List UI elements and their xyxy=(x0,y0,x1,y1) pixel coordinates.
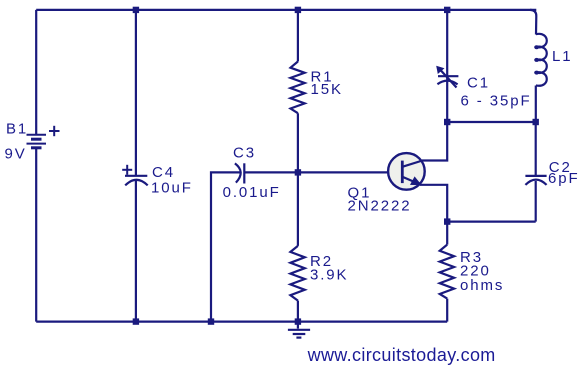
battery B1 xyxy=(27,135,47,148)
wire R1 to C3 node to R2 xyxy=(297,113,299,246)
resistor R2 xyxy=(290,246,304,301)
wire C4 branch lower xyxy=(135,181,137,322)
wire C3 right to Q1 base xyxy=(244,171,401,173)
wire L1 top corner xyxy=(530,10,536,35)
junction node tank right xyxy=(533,119,539,125)
wire R3 upper xyxy=(446,222,448,245)
svg-text:C1: C1 xyxy=(467,75,490,92)
wire R1 branch upper xyxy=(297,10,299,62)
wire top rail xyxy=(36,9,536,11)
wire left rail (battery branch upper) xyxy=(35,10,37,134)
wire C4 branch upper xyxy=(135,10,137,175)
ground xyxy=(288,322,310,338)
wire collector riser xyxy=(422,122,447,161)
wire tank bottom horizontal xyxy=(447,221,536,223)
svg-text:L1: L1 xyxy=(552,48,573,65)
junction node bottom at C4 xyxy=(133,318,139,324)
junction node bottom at C3 xyxy=(208,318,214,324)
svg-text:C4: C4 xyxy=(152,164,175,181)
resistor R3 xyxy=(440,245,454,299)
junction node bottom at ground xyxy=(295,318,301,324)
junction node top rail at R1 xyxy=(295,7,301,13)
wire R3 lower xyxy=(446,299,448,322)
svg-text:ohms: ohms xyxy=(460,277,504,294)
junction node C3 base xyxy=(295,169,301,175)
C1 arrow head xyxy=(436,66,444,74)
svg-text:9V: 9V xyxy=(5,146,27,163)
wire emitter to junction xyxy=(420,185,447,222)
svg-text:6pF: 6pF xyxy=(548,170,580,187)
C4 plus sign xyxy=(122,165,132,175)
svg-text:www.circuitstoday.com: www.circuitstoday.com xyxy=(307,345,496,365)
battery plus sign xyxy=(49,126,60,136)
junction node emitter xyxy=(444,218,450,224)
wire R2 to ground node xyxy=(297,301,299,322)
svg-text:6 - 35pF: 6 - 35pF xyxy=(461,93,532,110)
variable capacitor C1 xyxy=(437,70,458,88)
wire C2 upper xyxy=(535,122,537,175)
capacitor C2 xyxy=(525,176,546,185)
L1 coil knots xyxy=(534,45,539,74)
wire battery to bottom rail xyxy=(35,148,37,322)
svg-text:0.01uF: 0.01uF xyxy=(223,184,281,201)
transistor Q1 xyxy=(388,153,425,190)
svg-text:B1: B1 xyxy=(6,121,28,138)
junction node top rail at C4 xyxy=(133,7,139,13)
wire L1 bottom xyxy=(535,86,537,123)
svg-text:10uF: 10uF xyxy=(151,180,193,197)
svg-text:3.9K: 3.9K xyxy=(310,266,348,283)
capacitor C3 xyxy=(235,163,244,183)
wire C2 lower xyxy=(535,181,537,222)
svg-text:C3: C3 xyxy=(233,144,256,161)
svg-text:15K: 15K xyxy=(311,81,343,98)
wire tank top horizontal xyxy=(447,121,536,123)
svg-text:2N2222: 2N2222 xyxy=(348,198,412,215)
junction node top rail at C1 xyxy=(444,7,450,13)
inductor L1 xyxy=(536,34,547,86)
wire C1 branch vertical xyxy=(446,10,448,122)
wire C3 left vertical xyxy=(211,172,240,321)
resistor R1 xyxy=(291,62,305,114)
wire bottom rail xyxy=(36,321,447,323)
capacitor C4 xyxy=(125,176,148,186)
junction node tank left xyxy=(444,119,450,125)
